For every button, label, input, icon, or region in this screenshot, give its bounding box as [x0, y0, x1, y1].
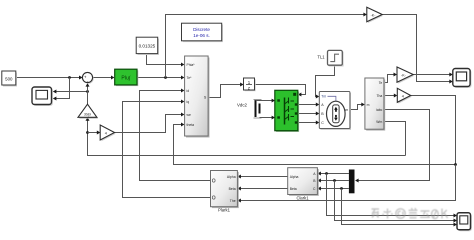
svg-text:4: 4: [105, 131, 107, 135]
svg-text:0.01325: 0.01325: [139, 43, 156, 48]
wire current B to bottom scope: [335, 181, 458, 223]
svg-text:Te*: Te*: [187, 76, 193, 80]
svg-text:500: 500: [5, 77, 13, 82]
svg-text:Alpha: Alpha: [227, 175, 236, 179]
svg-text:z: z: [248, 86, 250, 91]
scope Scope1 flipped: [32, 87, 53, 106]
node junction current C tap: [340, 187, 343, 190]
universal bridge inverter: [275, 90, 299, 132]
svg-text:Tha: Tha: [376, 94, 382, 98]
svg-text:-K-: -K-: [401, 73, 407, 77]
svg-text:PIu∫: PIu∫: [121, 76, 131, 82]
wire current A to bottom scope: [327, 174, 458, 218]
constant 500: [2, 71, 17, 87]
step source TL1: [317, 50, 343, 66]
scope bottom right: [457, 213, 472, 231]
wire bridge B to motor B: [298, 112, 319, 116]
wire Clark1 Beta to Plark1 Beta: [237, 187, 287, 191]
wire Te to gain K2: [384, 73, 397, 83]
wire Vdc2 minus to bridge: [262, 116, 275, 120]
svg-text:iabc: iabc: [376, 108, 383, 112]
svg-text:m: m: [367, 103, 370, 107]
watermark zhihu: [372, 208, 448, 219]
svg-text:id: id: [187, 89, 190, 93]
wire sum to PI: [93, 76, 115, 80]
svg-text:Clark1: Clark1: [296, 196, 309, 201]
svg-text:iq: iq: [187, 100, 190, 104]
wire speed feedback to scope input1: [53, 90, 88, 94]
svg-text:C: C: [321, 121, 324, 125]
svg-text:theta: theta: [187, 123, 195, 127]
svg-text:Alpha: Alpha: [290, 175, 299, 179]
wire constant 0.01325 to Phia* port: [147, 54, 185, 67]
wire Wm long feedback line: [86, 117, 406, 155]
wire mux B to Clark1 B: [317, 179, 349, 183]
wire wm branch into gain 4: [88, 131, 101, 135]
wire motor m to bus selector: [350, 103, 365, 110]
wire current C to bottom scope: [342, 189, 458, 227]
gain 30/pi: [78, 104, 98, 118]
wire mux C to Clark1 C: [317, 187, 349, 191]
node junction current A tap: [325, 172, 328, 175]
node junction current B tap: [333, 179, 336, 182]
svg-text:Beta: Beta: [290, 187, 297, 191]
wire Clark1 Alpha to Plark1 Alpha: [237, 175, 287, 179]
svg-text:Discrete: Discrete: [193, 27, 210, 32]
PMSM motor block: [319, 92, 351, 130]
wire unit delay to bridge gate: [255, 85, 306, 97]
wire S output to unit delay: [208, 83, 243, 98]
svg-text:we: we: [187, 113, 191, 117]
svg-text:m: m: [345, 108, 348, 112]
wire Te* tap up to top line and to top gain: [166, 13, 367, 78]
svg-text:1e-06 s.: 1e-06 s.: [193, 33, 210, 38]
svg-text:30/pi: 30/pi: [84, 113, 91, 117]
gain -K- Te: [397, 67, 414, 84]
node junction on speed feedback: [86, 90, 89, 93]
wire bridge A to motor A: [298, 103, 319, 107]
svg-text:Tm: Tm: [321, 95, 326, 99]
wire mux A to Clark1 A: [317, 172, 349, 176]
gain 4 speed: [100, 125, 116, 141]
wire iabc loop into mux: [355, 110, 429, 183]
svg-text:Phia*: Phia*: [187, 63, 196, 67]
controller subsystem block: [185, 56, 210, 138]
node junction theta branch: [454, 163, 457, 166]
svg-text:Plark1: Plark1: [218, 208, 231, 213]
DC source Vdc2: [237, 100, 262, 119]
wire Plark1 Q to q port: [123, 100, 211, 198]
powergui Discrete block: [182, 23, 224, 42]
wire gain4 output to we port: [115, 113, 185, 133]
wire bridge C to motor C: [298, 121, 319, 125]
wire 30/pi output up to sum minus: [86, 83, 90, 104]
PI controller block PIu: [115, 69, 139, 86]
node junction wm to gain4: [86, 131, 89, 134]
wire gain K2 to scope in1: [413, 73, 453, 77]
Clarke transform Clark1: [288, 168, 319, 201]
gain -K- top: [367, 7, 384, 23]
svg-text:4: 4: [402, 94, 404, 98]
svg-text:Te: Te: [379, 81, 383, 85]
svg-text:Wm: Wm: [376, 120, 382, 124]
svg-text:Vdc2: Vdc2: [237, 102, 248, 107]
unit delay 1/z: [244, 78, 256, 91]
wire TL1 step to Tm port: [316, 65, 335, 98]
wire top gain to scope in2: [382, 15, 453, 84]
svg-text:Beta: Beta: [229, 187, 236, 191]
Park transform Plark1: [211, 171, 239, 213]
svg-text:-K-: -K-: [371, 13, 377, 17]
wire Vdc2 plus to bridge: [262, 99, 275, 103]
wire PI output to Te* port: [137, 76, 184, 80]
mux bar: [349, 170, 355, 194]
scope top right: [453, 69, 472, 88]
wire Wm out to long line: [384, 122, 406, 156]
wire theta branch down to Plark1 The: [237, 165, 455, 203]
node junction Te* tap: [164, 76, 167, 79]
gain 4 theta: [397, 88, 412, 103]
wire Tha to gain 4b: [384, 94, 397, 98]
svg-text:TL1: TL1: [317, 55, 325, 60]
constant 0.01325: [136, 37, 159, 55]
wire Plark1 D to id port: [140, 89, 211, 181]
wire 500 to sum: [16, 76, 83, 80]
bus selector measurement block: [365, 78, 385, 131]
node junction on reference line: [68, 76, 71, 79]
svg-text:The: The: [230, 199, 236, 203]
sum block: [82, 72, 93, 83]
wire gain4b theta loop to theta port: [174, 96, 456, 165]
wire reference branch to scope input2: [53, 78, 70, 101]
